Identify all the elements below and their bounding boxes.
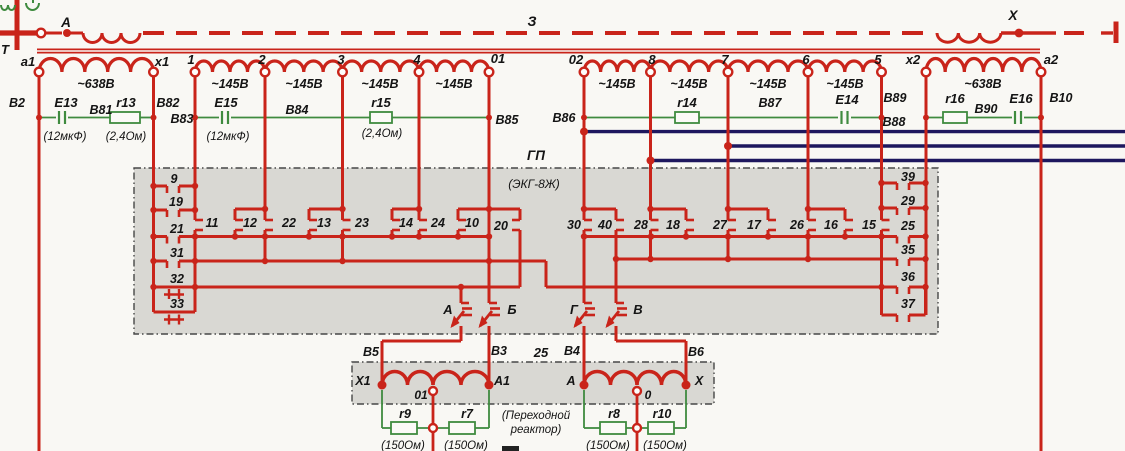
svg-text:В4: В4 (564, 344, 580, 358)
svg-text:(2,4Ом): (2,4Ом) (362, 128, 403, 140)
svg-text:А: А (60, 15, 71, 30)
svg-text:39: 39 (901, 170, 915, 184)
svg-text:14: 14 (399, 216, 413, 230)
svg-text:02: 02 (569, 52, 584, 67)
svg-text:Т: Т (1, 42, 10, 57)
svg-text:(150Ом): (150Ом) (643, 440, 687, 451)
svg-text:15: 15 (862, 218, 877, 232)
svg-text:a1: a1 (21, 54, 35, 69)
svg-text:r7: r7 (461, 407, 474, 421)
svg-text:(ЭКГ-8Ж): (ЭКГ-8Ж) (508, 177, 560, 191)
svg-text:А: А (565, 374, 575, 388)
svg-text:В87: В87 (759, 96, 783, 110)
svg-text:ГП: ГП (527, 148, 545, 163)
svg-text:Е15: Е15 (214, 95, 238, 110)
svg-text:В6: В6 (688, 345, 705, 359)
svg-text:В89: В89 (884, 91, 907, 105)
svg-text:3: 3 (337, 52, 345, 67)
svg-text:(150Ом): (150Ом) (586, 440, 630, 451)
svg-text:А: А (442, 302, 452, 317)
svg-text:20: 20 (493, 219, 508, 233)
svg-text:7: 7 (721, 52, 729, 67)
svg-text:Е13: Е13 (54, 95, 78, 110)
svg-text:27: 27 (712, 218, 728, 232)
svg-text:19: 19 (169, 195, 183, 209)
svg-text:Е14: Е14 (835, 92, 859, 107)
svg-text:(150Ом): (150Ом) (381, 440, 425, 451)
svg-text:33: 33 (170, 297, 184, 311)
svg-text:r13: r13 (116, 95, 136, 110)
svg-text:(12мкФ): (12мкФ) (207, 131, 250, 143)
svg-text:28: 28 (633, 218, 648, 232)
svg-text:29: 29 (900, 194, 915, 208)
svg-text:(Переходной: (Переходной (502, 410, 571, 422)
svg-text:x1: x1 (154, 54, 169, 69)
svg-text:~145В: ~145В (435, 77, 472, 91)
svg-text:01: 01 (414, 388, 428, 402)
svg-text:Г: Г (570, 302, 579, 317)
svg-text:В: В (633, 302, 642, 317)
svg-text:В85: В85 (496, 113, 520, 127)
svg-text:В81: В81 (90, 103, 113, 117)
svg-text:~145В: ~145В (285, 77, 322, 91)
svg-text:a2: a2 (1044, 52, 1059, 67)
svg-text:4: 4 (412, 52, 421, 67)
svg-text:40: 40 (597, 218, 612, 232)
svg-text:37: 37 (901, 297, 916, 311)
svg-text:Е16: Е16 (1009, 91, 1033, 106)
svg-text:реактор): реактор) (510, 424, 562, 436)
svg-text:~145В: ~145В (211, 77, 248, 91)
svg-text:25: 25 (900, 219, 916, 233)
svg-text:В86: В86 (553, 111, 577, 125)
svg-text:5: 5 (874, 52, 882, 67)
svg-text:В10: В10 (1050, 91, 1073, 105)
svg-text:21: 21 (169, 222, 184, 236)
svg-text:Х1: Х1 (354, 374, 370, 388)
svg-text:11: 11 (206, 216, 219, 230)
svg-text:А1: А1 (493, 374, 510, 388)
svg-text:r9: r9 (399, 407, 411, 421)
svg-text:r14: r14 (677, 95, 697, 110)
svg-text:В90: В90 (975, 102, 998, 116)
svg-text:В88: В88 (883, 115, 906, 129)
svg-text:r15: r15 (371, 95, 391, 110)
svg-text:~145В: ~145В (670, 77, 707, 91)
svg-text:16: 16 (824, 218, 839, 232)
svg-text:~145В: ~145В (361, 77, 398, 91)
svg-text:22: 22 (281, 216, 296, 230)
svg-text:В82: В82 (157, 96, 180, 110)
svg-text:В3: В3 (491, 344, 507, 358)
svg-text:01: 01 (491, 51, 505, 66)
svg-text:~638В: ~638В (964, 77, 1001, 91)
svg-text:32: 32 (170, 272, 184, 286)
svg-text:12: 12 (243, 216, 257, 230)
svg-text:23: 23 (354, 216, 369, 230)
svg-text:~145В: ~145В (826, 77, 863, 91)
svg-text:18: 18 (666, 218, 680, 232)
svg-text:Б: Б (507, 302, 516, 317)
svg-text:(150Ом): (150Ом) (444, 440, 488, 451)
svg-text:(2,4Ом): (2,4Ом) (106, 131, 147, 143)
svg-text:24: 24 (430, 216, 445, 230)
svg-text:r10: r10 (653, 407, 672, 421)
svg-text:Х: Х (1007, 8, 1018, 23)
svg-text:~638В: ~638В (77, 77, 114, 91)
svg-text:0: 0 (645, 388, 652, 402)
svg-text:~145В: ~145В (749, 77, 786, 91)
svg-text:8: 8 (648, 52, 656, 67)
svg-text:17: 17 (747, 218, 762, 232)
svg-text:26: 26 (789, 218, 805, 232)
svg-text:В2: В2 (9, 96, 25, 110)
svg-text:36: 36 (901, 270, 916, 284)
svg-text:10: 10 (465, 216, 479, 230)
svg-text:35: 35 (901, 243, 916, 257)
svg-text:В5: В5 (363, 345, 380, 359)
svg-text:31: 31 (170, 246, 184, 260)
svg-text:30: 30 (567, 218, 581, 232)
svg-text:В84: В84 (286, 103, 309, 117)
svg-text:13: 13 (317, 216, 331, 230)
svg-text:6: 6 (802, 52, 810, 67)
svg-text:1: 1 (187, 52, 194, 67)
svg-text:(12мкФ): (12мкФ) (44, 131, 87, 143)
svg-text:В83: В83 (171, 112, 194, 126)
svg-text:r16: r16 (945, 91, 965, 106)
svg-text:~145В: ~145В (598, 77, 635, 91)
svg-text:9: 9 (171, 172, 178, 186)
svg-text:З: З (528, 13, 537, 29)
svg-text:25: 25 (533, 345, 549, 360)
svg-text:x2: x2 (905, 52, 921, 67)
svg-text:Х: Х (694, 374, 704, 388)
svg-text:r8: r8 (608, 407, 620, 421)
svg-text:2: 2 (257, 52, 266, 67)
